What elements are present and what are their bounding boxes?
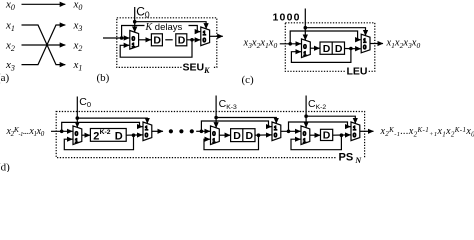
mux U8 stage2 right [272, 122, 281, 141]
node C0 junction stage1 [76, 116, 80, 120]
wire into stage2 [196, 130, 210, 132]
wire feedback bottom [291, 49, 351, 63]
register box 2^K-2 D [90, 129, 126, 142]
mux U2 right [201, 27, 210, 46]
svg-text:x0: x0 [5, 0, 15, 12]
node input junction stage1 [60, 130, 64, 134]
wire x0 straight [22, 3, 66, 5]
svg-text:CK-3: CK-3 [219, 98, 237, 111]
svg-text:(d): (d) [0, 162, 10, 173]
mux U9 stage3 left [301, 126, 310, 145]
svg-text:D: D [335, 43, 343, 55]
wire D2 to right mux [187, 39, 201, 41]
svg-text:1000: 1000 [273, 11, 301, 23]
wire mux to delay box [310, 47, 320, 49]
wire 1000 control vertical [304, 9, 306, 41]
node junction stage3 [340, 133, 344, 137]
svg-text:x1: x1 [73, 59, 83, 73]
wire mux to DD stage2 [219, 134, 230, 136]
dashed box LEU [285, 23, 375, 72]
svg-text:D: D [153, 35, 161, 47]
svg-text:C0: C0 [136, 4, 150, 19]
node C junction stage2 [214, 116, 218, 120]
node ellipsis dots [169, 129, 173, 133]
svg-text:D: D [233, 130, 241, 142]
wire output [209, 35, 222, 37]
mux U10 stage3 right [351, 122, 360, 141]
svg-text:(a): (a) [0, 72, 10, 84]
wire output [370, 43, 383, 45]
node input junction stage2 [200, 130, 204, 134]
svg-text:x2: x2 [5, 39, 15, 53]
label LEU [346, 66, 369, 75]
svg-text:x1x2x3x0: x1x2x3x0 [386, 38, 421, 50]
wire mux to delay stage1 [82, 134, 90, 136]
mux U5 stage1 left [73, 126, 82, 145]
register box DD [320, 42, 345, 54]
node D output junction [190, 38, 194, 42]
mux U3 left [302, 39, 311, 58]
wire mux to D1 [138, 39, 151, 41]
label SEU_K [182, 63, 214, 73]
mux U1 left [130, 31, 139, 50]
register D stage3 [321, 129, 333, 140]
wire DD to right mux stage2 [255, 134, 272, 136]
svg-text:x1: x1 [5, 19, 15, 33]
svg-text:(c): (c) [242, 74, 255, 86]
register D1 [151, 34, 162, 46]
svg-text:x3x2x1x0: x3x2x1x0 [243, 38, 278, 50]
mux U7 stage2 left [211, 126, 220, 145]
register D2 [176, 34, 187, 46]
svg-text:C0: C0 [79, 96, 91, 109]
wire control branch to right mux [305, 28, 365, 36]
wire C0 control vertical [134, 7, 136, 32]
wire D to right mux stage3 [333, 134, 351, 136]
mux U6 stage1 right [143, 122, 152, 141]
node delay output junction [349, 47, 353, 51]
node delay junction stage1 [132, 133, 136, 137]
wire delay to right mux stage1 [126, 134, 142, 136]
wire C branch stage3 [306, 116, 355, 123]
wire C0 control stage1 [76, 97, 78, 128]
dashed box SEU [117, 18, 217, 68]
svg-text:K delays: K delays [145, 22, 183, 33]
node input junction [288, 42, 292, 46]
wire delay to right mux [345, 48, 361, 50]
svg-text:(b): (b) [97, 72, 110, 84]
wire C K-3 control stage2 [215, 96, 217, 128]
wire feedback stage2 [204, 135, 259, 150]
wire C K-2 control stage3 [305, 96, 307, 128]
wire bypass stage3 [289, 122, 351, 131]
svg-text:K-2: K-2 [100, 129, 111, 136]
wire bypass stage1 [62, 122, 143, 131]
svg-text:CK-2: CK-2 [308, 98, 326, 111]
svg-text:D: D [115, 130, 123, 142]
wire bypass top [290, 31, 361, 44]
wire feedback bottom [120, 40, 192, 57]
svg-text:D: D [178, 35, 186, 47]
wire stage2 to stage3 [281, 130, 301, 132]
svg-text:D: D [246, 130, 254, 142]
svg-text:LEU: LEU [347, 65, 368, 77]
wire stage1 output [152, 130, 163, 132]
svg-text:2: 2 [93, 130, 99, 142]
wire mux to D stage3 [310, 134, 321, 136]
label PS_N [337, 152, 364, 162]
wire input [280, 43, 301, 45]
wire output [360, 130, 374, 132]
svg-text:x0: x0 [73, 0, 83, 12]
mux U4 right [361, 34, 370, 53]
node C0 junction [133, 20, 137, 24]
svg-text:x3: x3 [73, 19, 83, 33]
wire bypass stage2 [201, 121, 271, 131]
wire x3 crossing up [22, 25, 66, 65]
node junction stage2 [257, 133, 261, 137]
wire x2 straight [22, 44, 66, 46]
wire input [103, 37, 129, 39]
wire C branch stage2 [216, 118, 276, 124]
svg-text:x2: x2 [73, 39, 83, 53]
node control junction [304, 26, 308, 30]
register box DD stage2 [231, 129, 255, 142]
wire input [51, 130, 73, 132]
wire feedback stage1 [64, 135, 133, 150]
wire feedback stage3 [291, 135, 341, 150]
svg-text:x2K-1...x2K-1+1x1x2K-1x0: x2K-1...x2K-1+1x1x2K-1x0 [380, 126, 474, 139]
wire C0 branch stage1 [77, 118, 147, 123]
wire bypass top [122, 26, 201, 39]
dashed box PS [56, 112, 364, 158]
wire C0 branch to right mux [135, 22, 206, 29]
node C junction stage3 [304, 114, 308, 118]
label K delays [145, 23, 189, 31]
svg-text:D: D [323, 43, 331, 55]
wire break dash D-D [165, 39, 172, 41]
svg-text:x3: x3 [5, 59, 15, 73]
wire x1 crossing down [22, 25, 66, 65]
node input junction stage3 [287, 130, 291, 134]
node input junction [120, 36, 124, 40]
svg-text:x2K-1...x1x0: x2K-1...x1x0 [6, 125, 45, 138]
svg-text:D: D [323, 130, 331, 142]
